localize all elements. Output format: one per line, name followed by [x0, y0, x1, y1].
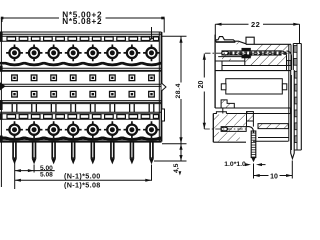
svg-text:(N-1)*5.08: (N-1)*5.08 [64, 180, 101, 189]
svg-text:N*5.08+2: N*5.08+2 [62, 17, 102, 26]
svg-text:10: 10 [270, 174, 278, 181]
svg-text:1.0*1.0: 1.0*1.0 [224, 161, 246, 168]
svg-text:(N-1)*5.00: (N-1)*5.00 [64, 172, 101, 181]
svg-text:28.4: 28.4 [175, 83, 182, 98]
svg-text:22: 22 [251, 20, 260, 29]
svg-text:5.08: 5.08 [40, 172, 53, 179]
svg-text:20: 20 [198, 81, 205, 89]
